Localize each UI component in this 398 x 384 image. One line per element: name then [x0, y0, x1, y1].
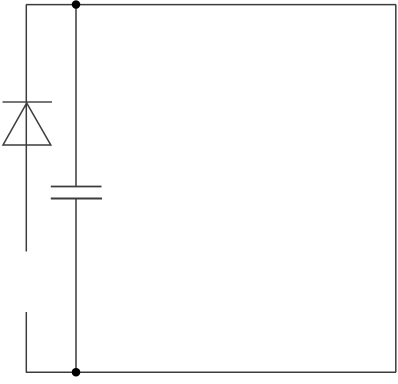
wire: middle branch lower (capacitor to bottom rail): [75, 199, 77, 373]
diode D1 cathode bar: [3, 101, 53, 103]
capacitor C1 bottom plate: [51, 198, 102, 200]
wire: middle branch upper (top rail to capacitor): [75, 5, 77, 187]
junction node: top: [72, 0, 81, 9]
wire: bottom rail: [26, 371, 396, 373]
wire: top rail: [26, 4, 396, 6]
wire: left branch upper (through diode, ends open): [25, 5, 27, 252]
wire: left branch lower (from open gap to bottom rail): [25, 312, 27, 373]
wire: right branch: [395, 5, 397, 373]
capacitor C1 top plate: [51, 186, 102, 188]
diode D1 triangle: [3, 103, 51, 145]
junction node: bottom: [72, 368, 81, 377]
